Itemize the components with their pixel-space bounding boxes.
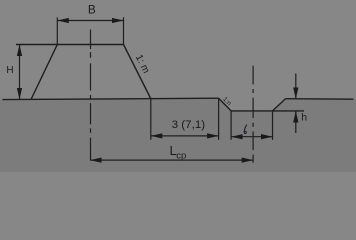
subgrade soil (darker area below terrain profile) <box>0 98 356 172</box>
svg-text:h: h <box>301 111 307 123</box>
ditch bottom with right reference extension <box>231 110 304 112</box>
dimension ell arrow line <box>231 136 272 138</box>
ditch right slope <box>273 99 286 111</box>
embankment right slope <box>124 45 151 99</box>
extension line at ditch bottom left <box>230 111 232 140</box>
dimension L_cp arrow line <box>90 159 253 161</box>
dimension h upper arrow <box>295 74 297 99</box>
ground line right of ditch <box>286 98 354 101</box>
ditch centerline (dash-dot axis) <box>252 66 254 163</box>
dimension 3 (7,1) arrow line <box>151 135 218 137</box>
svg-text:cp: cp <box>176 151 186 162</box>
extension line at ditch left edge <box>218 98 220 140</box>
background sky/upper area <box>0 0 356 172</box>
extension line at embankment right toe <box>150 99 152 140</box>
ground line left of ditch <box>3 98 219 99</box>
svg-text:H: H <box>6 65 13 76</box>
dimension H arrow line <box>19 45 21 100</box>
label ell (script lowercase L) <box>244 125 247 134</box>
dimension B extension line right <box>123 17 125 44</box>
embankment top edge with left extension <box>16 44 124 46</box>
dimension B arrow line <box>58 20 124 22</box>
svg-text:B: B <box>88 3 96 17</box>
extension line at ditch bottom right <box>272 111 274 140</box>
svg-text:3 (7,1): 3 (7,1) <box>172 119 206 131</box>
embankment centerline (dash-dot axis) <box>90 30 92 161</box>
ditch left slope <box>219 98 232 111</box>
dimension h lower arrow <box>295 111 297 133</box>
embankment left slope <box>31 45 57 100</box>
dimension B extension line left <box>56 17 58 44</box>
